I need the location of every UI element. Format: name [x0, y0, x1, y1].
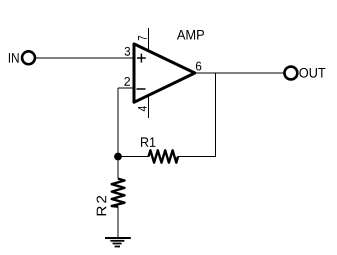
node A junction dot	[114, 153, 122, 161]
resistor R2 value label (rotated)	[97, 196, 107, 216]
resistor R1 value label	[141, 137, 155, 146]
wire output pin 6 to OUT terminal	[195, 72, 284, 74]
pin 3 number	[125, 47, 131, 56]
resistor R2 zigzag	[112, 179, 125, 207]
wire R1 right lead to feedback riser	[178, 156, 216, 158]
op-amp inverting minus sign	[137, 88, 146, 90]
wire node A down to R2 top lead	[117, 157, 119, 179]
op-amp reference label AMP	[177, 30, 204, 39]
pin 4 number (rotated)	[138, 106, 147, 111]
wire IN terminal to pin 3	[36, 57, 133, 59]
net label OUT	[299, 68, 325, 78]
op-amp non-inverting plus sign	[137, 54, 146, 63]
wire pin 2 horizontal	[118, 87, 133, 89]
wire R2 bottom lead to ground	[117, 207, 119, 238]
pin 6 number	[196, 62, 201, 71]
wire pin 2 riser down to node A	[117, 88, 119, 157]
terminal IN circle	[22, 51, 35, 64]
wire pin 7 stub	[148, 28, 150, 52]
net label IN	[9, 53, 19, 62]
pin 2 number	[124, 77, 130, 86]
pin 7 number (rotated)	[138, 36, 147, 40]
resistor R1 zigzag	[149, 150, 179, 162]
wire feedback riser from output down to R1	[215, 73, 217, 157]
terminal OUT circle	[284, 67, 297, 80]
wire pin 4 stub	[148, 94, 150, 118]
op-amp AMP triangle body	[134, 44, 195, 102]
ground	[105, 238, 131, 247]
wire node A to R1 left lead	[118, 156, 149, 158]
